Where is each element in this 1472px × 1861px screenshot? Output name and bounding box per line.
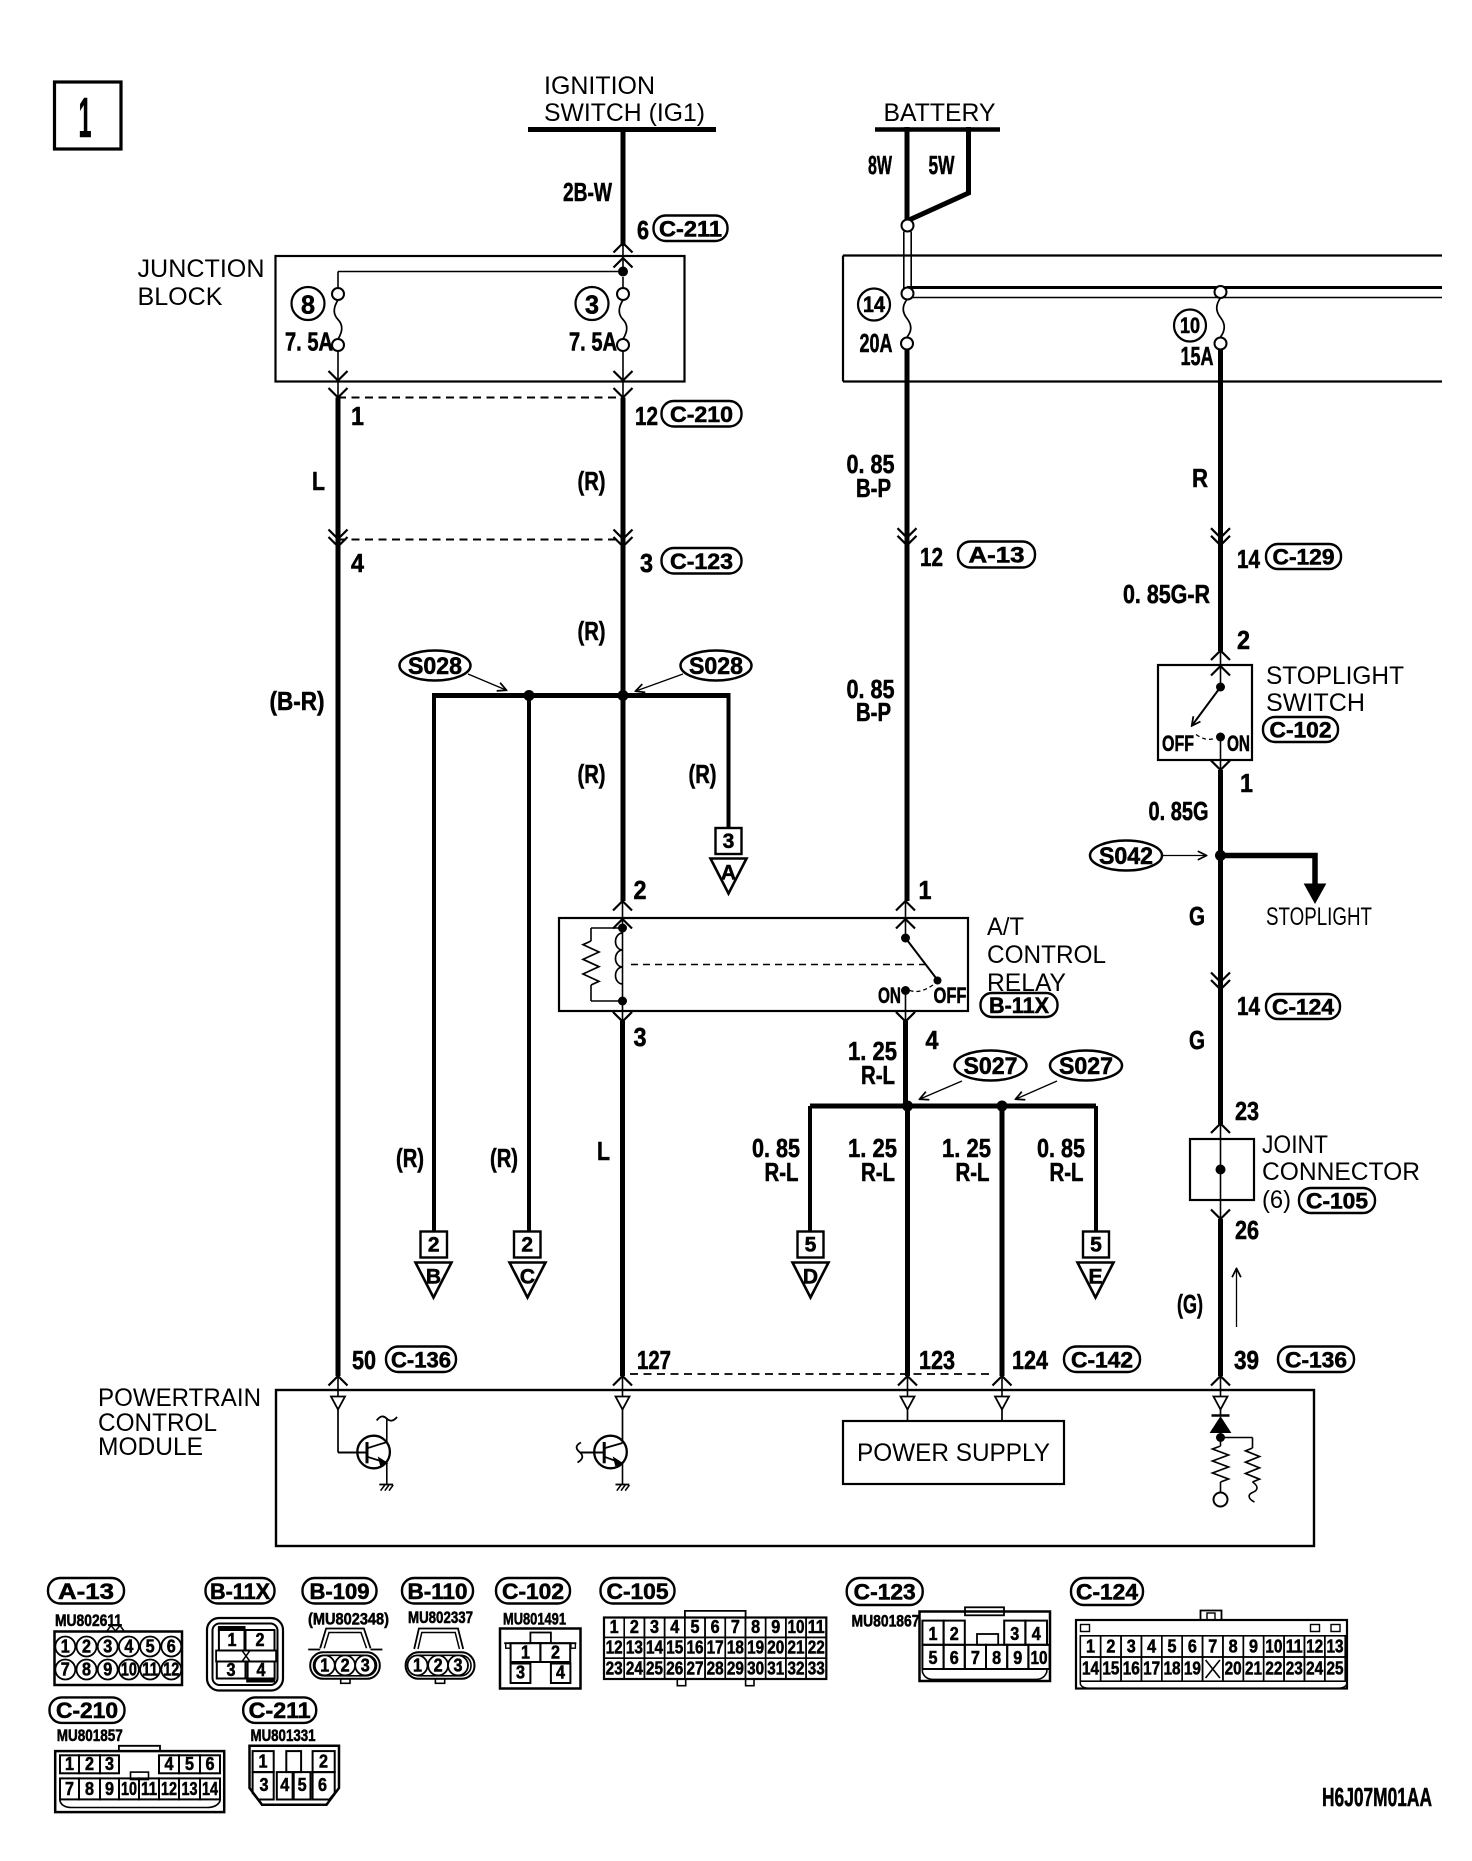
svg-text:CONTROL: CONTROL [987, 941, 1106, 969]
connector C-123 pill (table) [847, 1578, 923, 1605]
svg-text:1: 1 [521, 1642, 530, 1663]
svg-text:30: 30 [747, 1658, 764, 1679]
svg-text:C-136: C-136 [1285, 1347, 1347, 1372]
S027 splice bus wire [810, 1104, 1096, 1109]
svg-text:C-136: C-136 [391, 1347, 451, 1372]
svg-text:24: 24 [626, 1658, 644, 1679]
connector A-13 pill [48, 1578, 124, 1604]
svg-text:14: 14 [202, 1778, 219, 1799]
junction block left box [276, 256, 685, 382]
connector C-102 pill [496, 1578, 570, 1604]
svg-text:A: A [721, 862, 736, 885]
junction dot S028 a [524, 690, 535, 701]
wire 1.25 R-L from relay [903, 1021, 908, 1106]
wire stubs through C-210 crossing [337, 381, 339, 398]
pin row dashed line [630, 1373, 993, 1375]
svg-text:C-105: C-105 [607, 1579, 669, 1604]
splice S042 oval [1090, 841, 1162, 871]
svg-text:19: 19 [1184, 1658, 1201, 1679]
svg-text:26: 26 [666, 1658, 683, 1679]
battery bus inside junction block [907, 286, 1442, 289]
wire 2B-W from ignition switch [621, 127, 626, 246]
svg-text:6: 6 [318, 1774, 327, 1795]
svg-text:3: 3 [260, 1774, 269, 1795]
internal wire to fuse 8 [338, 271, 623, 273]
svg-text:5: 5 [805, 1234, 817, 1257]
PCM pin triangle 124 [1001, 1377, 1003, 1397]
wire (R) branch to arrow B [432, 693, 436, 1232]
wire (G) to PCM pin 39 [1218, 1219, 1223, 1376]
svg-text:6: 6 [950, 1647, 959, 1668]
connector C-211 pill [243, 1697, 316, 1723]
svg-text:R: R [1192, 463, 1208, 493]
svg-text:JUNCTION: JUNCTION [138, 255, 265, 283]
svg-text:6: 6 [1188, 1636, 1197, 1657]
svg-text:C-123: C-123 [670, 549, 733, 574]
connector A-13 crossing [898, 528, 917, 538]
wire (R) branch to arrow A [727, 693, 731, 828]
svg-text:12: 12 [635, 401, 658, 431]
splice S027 left oval [955, 1051, 1027, 1081]
svg-text:C-129: C-129 [1273, 545, 1335, 570]
svg-text:G: G [1189, 1025, 1205, 1055]
harness arrow B (2) [421, 1232, 448, 1258]
svg-text:1: 1 [65, 1753, 74, 1774]
svg-text:3: 3 [103, 1636, 112, 1657]
svg-text:7: 7 [61, 1659, 70, 1680]
svg-text:29: 29 [727, 1658, 744, 1679]
svg-text:B-P: B-P [856, 697, 891, 727]
svg-text:7: 7 [731, 1616, 740, 1637]
svg-text:OFF: OFF [1162, 731, 1194, 756]
stoplight switch output [1220, 741, 1222, 770]
svg-text:7: 7 [65, 1778, 74, 1799]
svg-text:11: 11 [808, 1616, 825, 1637]
svg-text:8W: 8W [868, 150, 892, 180]
svg-text:1: 1 [259, 1751, 268, 1772]
svg-text:12: 12 [920, 542, 943, 572]
svg-text:24: 24 [1306, 1658, 1324, 1679]
svg-text:7: 7 [971, 1647, 980, 1668]
svg-text:R-L: R-L [765, 1157, 799, 1187]
svg-text:SWITCH: SWITCH [1266, 689, 1365, 717]
svg-text:MU801331: MU801331 [251, 1726, 316, 1745]
connector C-210 pill [50, 1697, 125, 1723]
svg-text:4: 4 [1032, 1623, 1042, 1644]
svg-text:9: 9 [103, 1659, 112, 1680]
svg-text:5: 5 [929, 1647, 938, 1668]
svg-text:33: 33 [808, 1658, 825, 1679]
junction dot pull resistor [1216, 1433, 1225, 1442]
svg-text:14: 14 [863, 292, 886, 317]
svg-text:3: 3 [1010, 1623, 1019, 1644]
fuse 8 (7.5A) [332, 288, 344, 300]
wire 0.85 R-L to arrow E [1094, 1106, 1098, 1232]
pull-down resistor R1 [1220, 1438, 1222, 1447]
svg-text:ON: ON [1227, 731, 1250, 756]
ground Q1 [379, 1484, 393, 1486]
fuse 3 (7.5A) [622, 277, 624, 288]
svg-text:2: 2 [85, 1753, 94, 1774]
PCM pin triangle 127 [622, 1377, 624, 1397]
svg-text:3: 3 [454, 1654, 463, 1675]
svg-text:3: 3 [105, 1753, 114, 1774]
svg-text:21: 21 [787, 1637, 804, 1658]
svg-text:2: 2 [341, 1654, 350, 1675]
svg-text:10: 10 [1265, 1636, 1282, 1657]
svg-text:S028: S028 [689, 653, 743, 680]
svg-text:R-L: R-L [956, 1157, 990, 1187]
svg-text:8: 8 [1229, 1636, 1238, 1657]
svg-text:7: 7 [1208, 1636, 1217, 1657]
svg-text:2: 2 [634, 875, 647, 905]
svg-text:C-123: C-123 [854, 1580, 916, 1605]
svg-text:S028: S028 [408, 653, 462, 680]
svg-text:10: 10 [787, 1616, 804, 1637]
svg-text:123: 123 [919, 1345, 955, 1375]
connector C-211 drawing [250, 1746, 340, 1805]
PCM pin triangle 50 [337, 1377, 339, 1397]
junction dot S028 b [618, 690, 629, 701]
harness arrow E (5) [1083, 1232, 1109, 1258]
svg-text:3: 3 [585, 290, 599, 320]
svg-text:14: 14 [1082, 1658, 1100, 1679]
connector B-110 pill [402, 1578, 473, 1604]
connector C-102 pill [1263, 717, 1338, 742]
svg-text:10: 10 [121, 1659, 137, 1680]
svg-text:7. 5A: 7. 5A [285, 327, 333, 357]
svg-text:5: 5 [185, 1753, 194, 1774]
svg-text:19: 19 [747, 1637, 764, 1658]
svg-text:S027: S027 [1059, 1053, 1113, 1080]
S028 splice bus wire [434, 693, 729, 698]
fuse 10 (15A) [1215, 286, 1227, 298]
stoplight switch box [1158, 665, 1252, 760]
svg-text:2: 2 [428, 1234, 440, 1257]
svg-text:20: 20 [767, 1637, 784, 1658]
svg-text:5: 5 [1090, 1234, 1102, 1257]
svg-text:11: 11 [142, 1659, 158, 1680]
svg-text:(R): (R) [578, 759, 606, 789]
wire 1.25 R-L to PCM pin 123 [905, 1106, 910, 1376]
connector C-123 dashed line [338, 539, 622, 541]
svg-text:6: 6 [637, 215, 649, 245]
transistor Q1 [337, 1410, 339, 1453]
connector C-105 drawing [685, 1611, 746, 1618]
svg-text:B-11X: B-11X [210, 1579, 270, 1604]
svg-text:23: 23 [1235, 1096, 1259, 1126]
fuse 14 (20A) [858, 289, 890, 321]
page number box 1 [55, 82, 122, 149]
svg-text:C-210: C-210 [670, 402, 733, 427]
svg-text:JOINT: JOINT [1262, 1131, 1328, 1159]
connector C-124 crossing [1211, 973, 1230, 983]
svg-text:4: 4 [670, 1616, 680, 1637]
svg-text:SWITCH (IG1): SWITCH (IG1) [544, 99, 705, 127]
svg-text:3: 3 [650, 1616, 659, 1637]
svg-text:23: 23 [1286, 1658, 1303, 1679]
transistor Q2 [622, 1410, 624, 1444]
connector C-102 drawing [500, 1629, 581, 1689]
svg-text:3: 3 [516, 1662, 525, 1683]
svg-text:A-13: A-13 [969, 543, 1025, 568]
svg-text:ON: ON [878, 983, 901, 1008]
svg-text:4: 4 [257, 1659, 267, 1680]
svg-text:L: L [597, 1136, 610, 1166]
svg-text:S042: S042 [1099, 843, 1153, 870]
svg-text:2: 2 [1106, 1636, 1115, 1657]
svg-text:4: 4 [351, 548, 364, 578]
svg-text:39: 39 [1234, 1345, 1259, 1375]
svg-text:5: 5 [146, 1636, 155, 1657]
svg-text:9: 9 [771, 1616, 780, 1637]
relay output chevrons [622, 1005, 624, 1021]
connector C-211 pill [654, 216, 728, 242]
svg-text:0. 85G: 0. 85G [1149, 796, 1209, 826]
svg-text:2: 2 [82, 1636, 91, 1657]
relay switch [905, 918, 907, 934]
svg-text:A/T: A/T [987, 913, 1024, 941]
svg-text:23: 23 [606, 1658, 623, 1679]
svg-text:8: 8 [82, 1659, 91, 1680]
splice S027 right oval [1050, 1051, 1122, 1081]
connector A-13 drawing [55, 1632, 183, 1686]
junction dot S027 a [902, 1101, 913, 1112]
svg-text:25: 25 [646, 1658, 663, 1679]
svg-text:10: 10 [1180, 313, 1200, 338]
svg-text:14: 14 [1237, 544, 1260, 574]
svg-text:27: 27 [686, 1658, 703, 1679]
splice S028 left oval [400, 651, 471, 681]
svg-text:IGNITION: IGNITION [544, 72, 655, 100]
svg-text:18: 18 [727, 1637, 744, 1658]
svg-text:124: 124 [1012, 1345, 1048, 1375]
svg-text:POWERTRAIN: POWERTRAIN [98, 1384, 261, 1412]
svg-text:11: 11 [1286, 1636, 1303, 1657]
relay coil [622, 918, 624, 924]
svg-text:4: 4 [280, 1774, 290, 1795]
svg-text:17: 17 [1143, 1658, 1160, 1679]
svg-text:2: 2 [256, 1629, 265, 1650]
svg-text:10: 10 [121, 1778, 137, 1799]
svg-text:16: 16 [1123, 1658, 1140, 1679]
svg-text:1: 1 [320, 1654, 329, 1675]
wire L relay to PCM [620, 1021, 625, 1376]
svg-text:1: 1 [228, 1629, 237, 1650]
A/T control relay box [559, 918, 968, 1011]
svg-text:1: 1 [413, 1654, 422, 1675]
junction block right box (battery side) [843, 254, 1442, 256]
svg-text:MU801857: MU801857 [57, 1726, 123, 1745]
svg-text:MU801491: MU801491 [503, 1610, 566, 1629]
wire 0.85 R-L to arrow D [808, 1106, 812, 1232]
connector C-129 crossing [1211, 528, 1230, 538]
svg-text:L: L [312, 466, 325, 496]
svg-text:1: 1 [61, 1636, 70, 1657]
svg-text:8: 8 [751, 1616, 760, 1637]
wire (R) branch to arrow C [527, 696, 531, 1232]
svg-text:22: 22 [808, 1637, 825, 1658]
svg-text:17: 17 [707, 1637, 724, 1658]
svg-text:4: 4 [926, 1025, 939, 1055]
svg-text:16: 16 [686, 1637, 703, 1658]
svg-text:9: 9 [105, 1778, 114, 1799]
joint connector box C-105 [1190, 1139, 1254, 1200]
svg-text:E: E [1088, 1266, 1102, 1289]
svg-text:(R): (R) [689, 759, 717, 789]
svg-text:D: D [803, 1266, 818, 1289]
svg-text:8: 8 [992, 1647, 1001, 1668]
svg-text:C-211: C-211 [659, 216, 722, 241]
PCM pin triangle 39 [1220, 1377, 1222, 1397]
splice S028 right oval [681, 651, 752, 681]
svg-text:2: 2 [434, 1654, 443, 1675]
pin 26 joint connector [1220, 1200, 1222, 1219]
connector B-11X pill [981, 993, 1058, 1017]
stoplight feed branch wire [1221, 856, 1316, 887]
svg-text:3: 3 [723, 830, 735, 853]
svg-text:C-211: C-211 [249, 1698, 311, 1723]
svg-text:MU802337: MU802337 [408, 1608, 473, 1627]
svg-text:2: 2 [319, 1751, 328, 1772]
svg-text:B-11X: B-11X [989, 993, 1049, 1018]
svg-text:POWER SUPPLY: POWER SUPPLY [857, 1439, 1050, 1467]
connector B-11X pill [206, 1578, 275, 1604]
svg-text:C-210: C-210 [56, 1698, 118, 1723]
svg-text:32: 32 [787, 1658, 804, 1679]
svg-text:14: 14 [646, 1637, 664, 1658]
svg-text:6: 6 [711, 1616, 720, 1637]
connector C-105 pill (table) [601, 1578, 675, 1604]
svg-text:3: 3 [1127, 1636, 1136, 1657]
svg-text:7. 5A: 7. 5A [569, 327, 617, 357]
svg-text:(R): (R) [396, 1143, 424, 1173]
harness arrow A (3) [716, 828, 742, 854]
svg-text:5: 5 [298, 1774, 307, 1795]
svg-text:3: 3 [640, 548, 653, 578]
svg-text:BLOCK: BLOCK [138, 283, 223, 311]
svg-text:C: C [520, 1266, 535, 1289]
svg-text:4: 4 [124, 1636, 134, 1657]
svg-text:2: 2 [521, 1234, 533, 1257]
svg-text:5W: 5W [929, 150, 955, 180]
junction dot S027 b [997, 1101, 1008, 1112]
fusible link element [902, 220, 914, 232]
svg-text:127: 127 [637, 1345, 671, 1375]
wire 5W from battery [909, 127, 969, 220]
connector B-110 drawing [414, 1629, 463, 1650]
svg-text:B: B [426, 1266, 441, 1289]
svg-text:G: G [1189, 901, 1205, 931]
svg-text:STOPLIGHT: STOPLIGHT [1266, 903, 1372, 931]
svg-text:18: 18 [1163, 1658, 1180, 1679]
PCM pin triangle 123 [907, 1377, 909, 1397]
svg-text:(G): (G) [1177, 1289, 1203, 1319]
svg-text:12: 12 [161, 1778, 177, 1799]
svg-text:9: 9 [1249, 1636, 1258, 1657]
svg-text:C-102: C-102 [502, 1579, 564, 1604]
wire L left (fuse 8 to PCM pin 50) [336, 398, 341, 1377]
junction dot at C-211 feed [622, 256, 624, 272]
svg-text:3: 3 [227, 1659, 236, 1680]
svg-text:12: 12 [606, 1637, 623, 1658]
svg-text:15: 15 [666, 1637, 683, 1658]
svg-text:12: 12 [163, 1659, 179, 1680]
connector C-124 pill (table) [1071, 1578, 1143, 1605]
svg-text:8: 8 [301, 290, 315, 320]
svg-text:B-109: B-109 [310, 1579, 370, 1604]
connector C-210 drawing [55, 1751, 224, 1812]
svg-text:C-124: C-124 [1076, 1580, 1139, 1605]
svg-text:6: 6 [167, 1636, 176, 1657]
ground Q2 [616, 1484, 630, 1486]
svg-text:4: 4 [1147, 1636, 1157, 1657]
zener diode at pin 39 [1220, 1410, 1222, 1416]
svg-text:5: 5 [690, 1616, 699, 1637]
svg-text:R-L: R-L [861, 1060, 895, 1090]
connector C-123 drawing [920, 1612, 1051, 1682]
svg-text:22: 22 [1265, 1658, 1282, 1679]
svg-text:(MU802348): (MU802348) [308, 1610, 389, 1629]
svg-text:1: 1 [919, 875, 932, 905]
svg-text:(R): (R) [578, 466, 606, 496]
wire R from fuse 10 [1218, 349, 1223, 651]
svg-text:15A: 15A [1181, 341, 1214, 371]
svg-text:S027: S027 [964, 1053, 1018, 1080]
connector B-109 pill [303, 1578, 377, 1604]
wire 0.85G [1218, 770, 1223, 1124]
svg-text:1: 1 [610, 1616, 619, 1637]
svg-text:R-L: R-L [861, 1157, 895, 1187]
svg-text:2: 2 [551, 1642, 560, 1663]
svg-text:BATTERY: BATTERY [884, 99, 996, 127]
svg-text:2: 2 [950, 1623, 959, 1644]
svg-text:1: 1 [929, 1623, 938, 1644]
svg-text:25: 25 [1327, 1658, 1344, 1679]
svg-text:B-P: B-P [856, 473, 891, 503]
svg-text:12: 12 [1306, 1636, 1323, 1657]
svg-text:C-124: C-124 [1272, 995, 1335, 1020]
connector B-11X drawing [207, 1618, 283, 1691]
ignition switch bus bar [528, 127, 716, 132]
svg-text:10: 10 [1031, 1647, 1048, 1668]
svg-text:C-142: C-142 [1071, 1347, 1133, 1372]
svg-text:20A: 20A [860, 328, 893, 358]
svg-text:A-13: A-13 [58, 1579, 114, 1604]
sense resistor R2 [1221, 1437, 1253, 1439]
svg-text:21: 21 [1245, 1658, 1262, 1679]
svg-text:15: 15 [1102, 1658, 1119, 1679]
svg-text:(R): (R) [490, 1143, 518, 1173]
svg-text:3: 3 [634, 1022, 647, 1052]
svg-text:50: 50 [352, 1345, 376, 1375]
svg-text:3: 3 [361, 1654, 370, 1675]
svg-text:4: 4 [556, 1662, 566, 1683]
svg-text:R-L: R-L [1050, 1157, 1084, 1187]
fuse 8 output chevron [329, 371, 348, 381]
svg-text:5: 5 [1167, 1636, 1176, 1657]
svg-text:20: 20 [1225, 1658, 1242, 1679]
svg-text:28: 28 [707, 1658, 724, 1679]
svg-text:MODULE: MODULE [98, 1433, 203, 1461]
svg-text:1: 1 [1086, 1636, 1095, 1657]
svg-text:4: 4 [165, 1753, 175, 1774]
svg-text:1: 1 [79, 86, 92, 150]
fuse 3 output chevron [614, 371, 633, 381]
svg-text:1: 1 [1240, 768, 1253, 798]
svg-text:2: 2 [630, 1616, 639, 1637]
relay shunt resistor [591, 927, 623, 929]
